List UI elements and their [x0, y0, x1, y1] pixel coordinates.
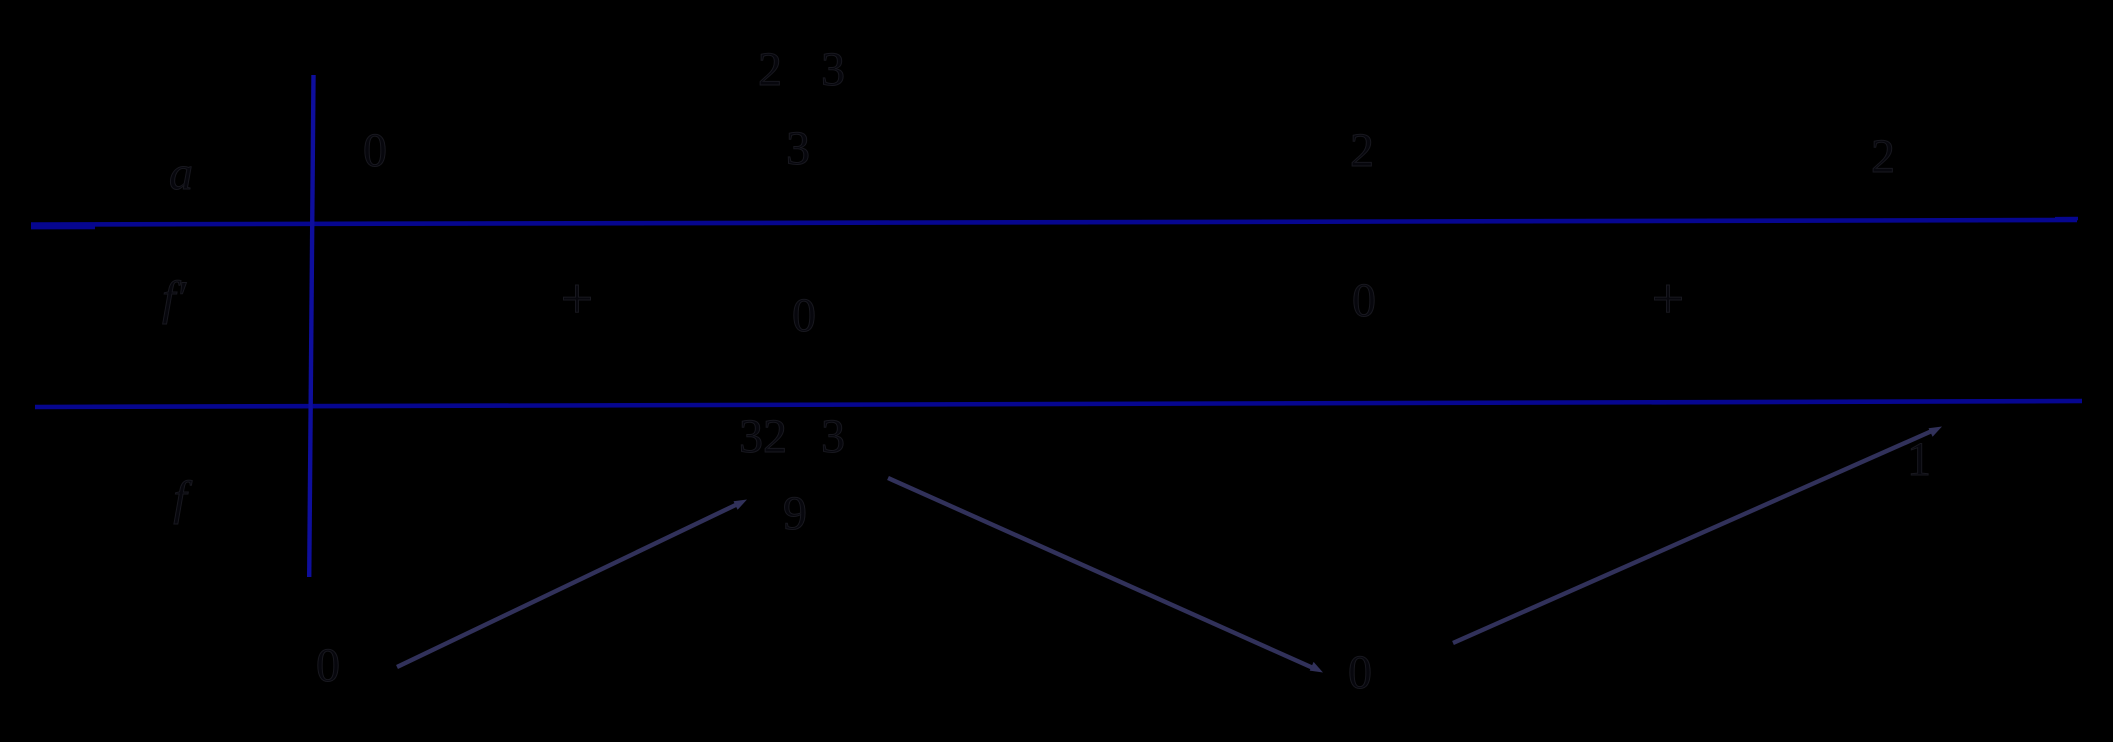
- svg-text:a: a: [169, 147, 193, 200]
- svg-text:0: 0: [1352, 274, 1376, 327]
- svg-text:0: 0: [792, 289, 816, 342]
- svg-text:3: 3: [786, 122, 810, 175]
- svg-text:9: 9: [783, 487, 807, 540]
- svg-text:32: 32: [739, 410, 787, 463]
- svg-text:+: +: [1652, 266, 1685, 331]
- svg-text:2: 2: [1350, 124, 1374, 177]
- svg-text:+: +: [561, 266, 594, 331]
- svg-text:0: 0: [316, 639, 340, 692]
- table vertical line: [309, 75, 313, 577]
- svg-text:3: 3: [821, 43, 845, 96]
- table bottom horizontal line: [35, 401, 2082, 407]
- svg-text:0: 0: [363, 124, 387, 177]
- svg-text:2: 2: [758, 43, 782, 96]
- arrow up left: [397, 500, 747, 668]
- svg-text:f′: f′: [162, 272, 187, 325]
- table top horizontal line: [31, 219, 2078, 228]
- svg-text:0: 0: [1348, 646, 1372, 699]
- svg-text:2: 2: [1871, 130, 1895, 183]
- svg-text:3: 3: [821, 410, 845, 463]
- arrow down middle: [888, 478, 1323, 673]
- arrow up right: [1453, 427, 1942, 644]
